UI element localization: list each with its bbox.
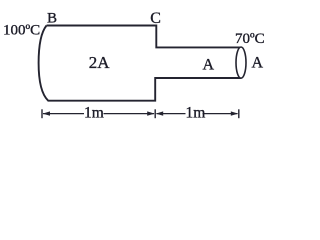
svg-text:A: A [203, 57, 215, 74]
svg-text:70ºC: 70ºC [235, 31, 265, 47]
svg-text:1m: 1m [84, 104, 104, 121]
svg-text:C: C [150, 10, 161, 27]
svg-text:A: A [252, 55, 264, 72]
svg-text:B: B [47, 10, 57, 26]
svg-text:1m: 1m [186, 104, 206, 121]
svg-text:2A: 2A [89, 53, 111, 72]
svg-text:100ºC: 100ºC [3, 22, 40, 38]
